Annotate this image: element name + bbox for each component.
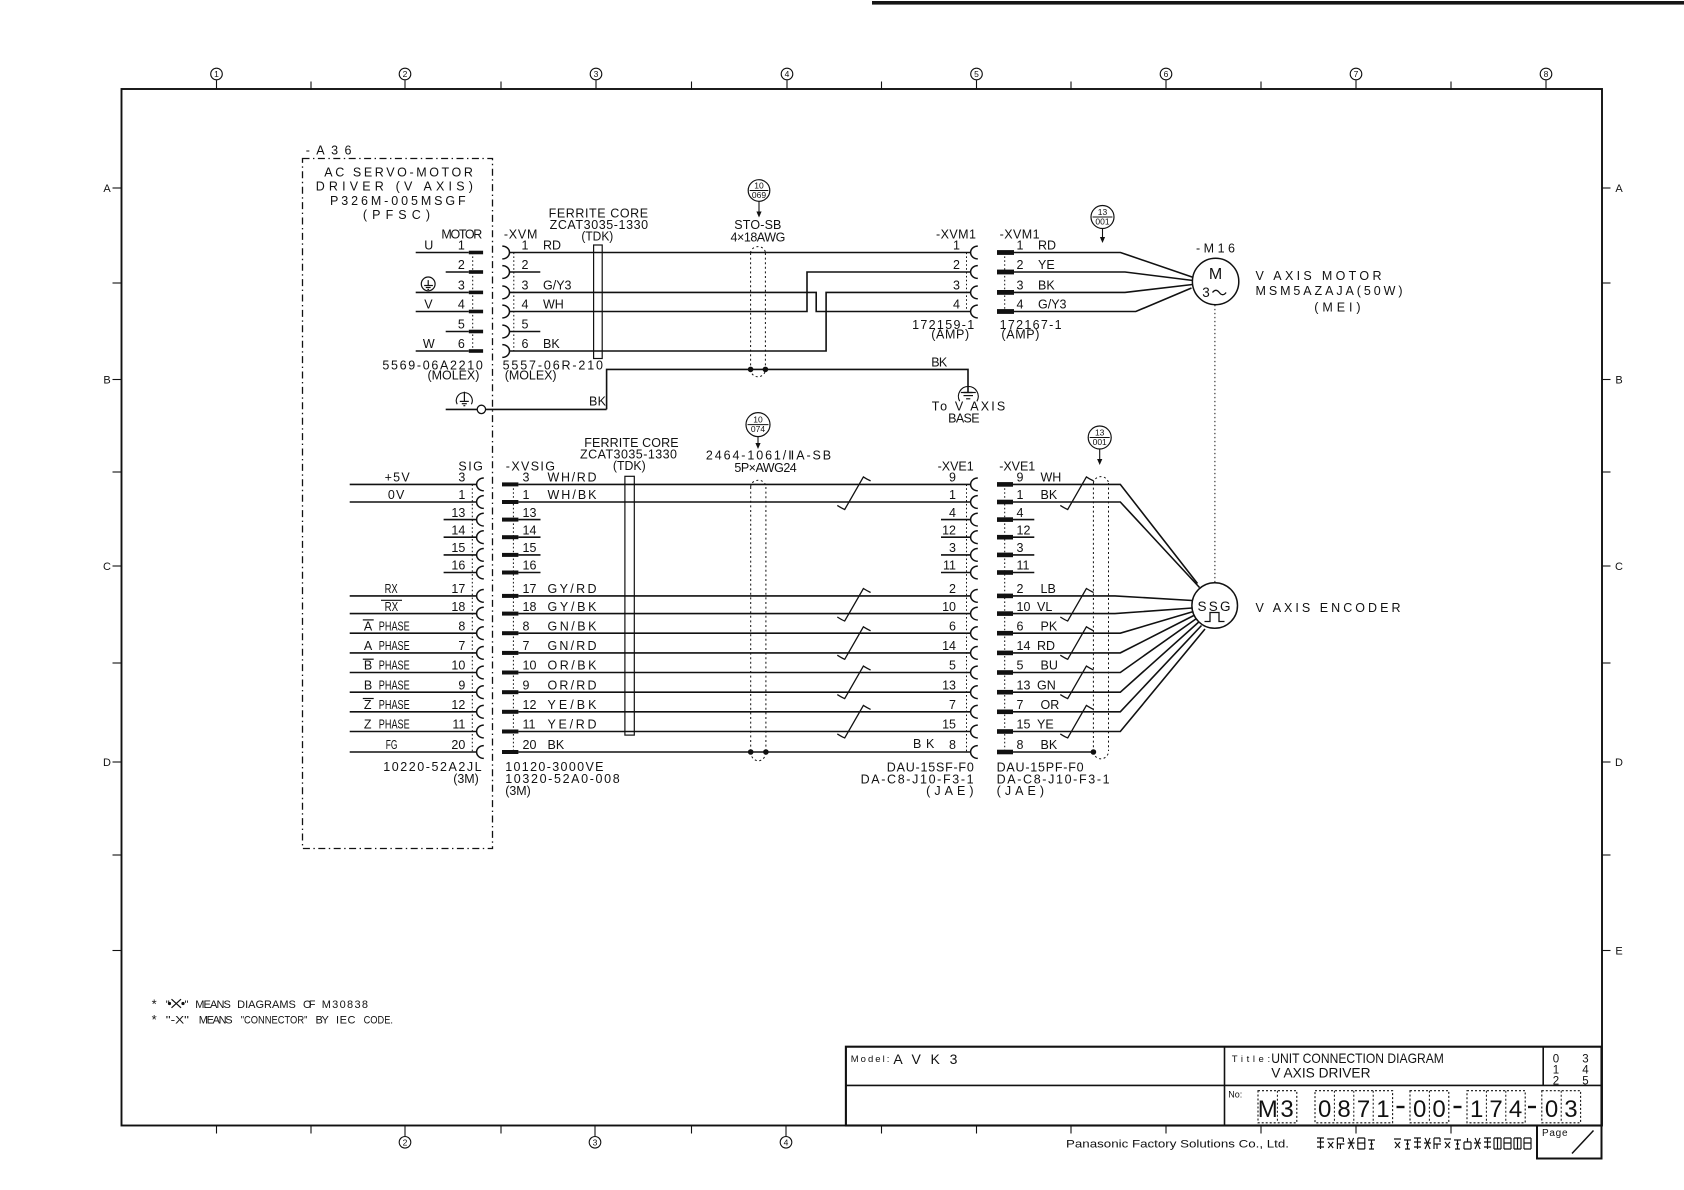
svg-text:No:: No:: [1228, 1090, 1242, 1100]
svg-text:2: 2: [1017, 582, 1024, 596]
svg-text:PHASE: PHASE: [379, 678, 410, 692]
svg-text:OF: OF: [303, 999, 316, 1011]
svg-text:3: 3: [522, 279, 529, 293]
svg-text:1: 1: [949, 488, 956, 502]
svg-text:A: A: [103, 183, 111, 195]
svg-text:PHASE: PHASE: [379, 619, 410, 633]
svg-text:BK: BK: [543, 337, 560, 351]
connector -XVM1 receptacle 172159-1 AMP: [912, 228, 978, 342]
svg-text:5: 5: [522, 318, 529, 332]
svg-text:": ": [185, 999, 189, 1011]
wire XVM1-3 BK to motor: [1014, 285, 1193, 293]
SIG pin wires: [350, 484, 477, 752]
svg-text:YE: YE: [1038, 258, 1055, 272]
svg-text:V AXIS DRIVER: V AXIS DRIVER: [1271, 1065, 1370, 1081]
wire XVE1-9 WH to encoder: [1013, 484, 1198, 583]
svg-text:2: 2: [522, 258, 529, 272]
svg-text:15: 15: [942, 718, 956, 732]
svg-text:5: 5: [949, 659, 956, 673]
drawing number M3 0871-00-174-03: [1228, 1090, 1580, 1124]
svg-text:11: 11: [523, 718, 536, 732]
svg-text:2: 2: [403, 1137, 408, 1147]
svg-text:12: 12: [1017, 523, 1031, 537]
cable STO-SB 4x18AWG sheath: [731, 218, 786, 377]
svg-text:8: 8: [523, 619, 530, 633]
svg-text:8: 8: [1337, 1096, 1350, 1123]
svg-text:11: 11: [452, 718, 465, 732]
wire XVM1-2 YE to motor: [1014, 272, 1193, 281]
svg-text:BU: BU: [1041, 659, 1058, 673]
wire XVM-3 G/Y3 to XVM1-4: [510, 292, 971, 311]
svg-text:C: C: [1615, 561, 1623, 573]
encoder signal wires XVSIG to XVE1: [518, 484, 970, 752]
reference circle 10/074: [746, 413, 770, 437]
svg-text:3: 3: [523, 471, 530, 485]
svg-text:WH: WH: [1041, 471, 1062, 485]
svg-text:GN: GN: [1037, 678, 1056, 692]
wire XVM1-1 RD to motor: [1014, 253, 1194, 278]
svg-text:5: 5: [1582, 1076, 1588, 1088]
svg-text:0: 0: [1413, 1096, 1426, 1123]
svg-text:15: 15: [451, 541, 465, 555]
wire XVE1-2 LB to encoder: [1013, 596, 1192, 601]
svg-text:FG: FG: [386, 738, 398, 752]
svg-text:BK: BK: [1041, 738, 1058, 752]
svg-text:5: 5: [458, 318, 465, 332]
svg-text:M: M: [1258, 1096, 1278, 1123]
connector -XVM 5557-06R-210 MOLEX: [502, 228, 603, 383]
MOTOR pin labels U / V / W: [423, 239, 435, 352]
model field AVK3: [851, 1051, 958, 1067]
dotted mechanical link motor to encoder: [1214, 305, 1216, 583]
svg-text:W: W: [423, 337, 435, 351]
svg-text:3: 3: [593, 1137, 598, 1147]
svg-text:M: M: [1209, 266, 1222, 283]
svg-text:2: 2: [1553, 1076, 1559, 1088]
svg-text:GN/RD: GN/RD: [548, 639, 597, 653]
svg-text:8: 8: [1544, 69, 1549, 79]
svg-text:12: 12: [451, 698, 465, 712]
svg-text:13: 13: [1098, 207, 1108, 217]
svg-text:(TDK): (TDK): [581, 230, 613, 244]
svg-text:20: 20: [451, 738, 465, 752]
svg-text:11: 11: [943, 559, 956, 573]
wire XVE1-13 GN to encoder: [1013, 622, 1199, 692]
connector -XVE1 plug DAU-15PF-F0 DA-C8-J10-F3-1 JAE: [997, 460, 1110, 798]
svg-text:4: 4: [458, 298, 465, 312]
svg-text:1: 1: [522, 239, 529, 253]
svg-text:10: 10: [451, 659, 465, 673]
wire XVM-2 stub: [510, 271, 541, 273]
svg-text:IEC: IEC: [336, 1015, 356, 1027]
svg-text:VL: VL: [1037, 600, 1052, 614]
connector -XVE1 receptacle DAU-15SF-F0 DA-C8-J10-F3-1 JAE: [861, 460, 978, 798]
svg-text:4: 4: [522, 298, 529, 312]
svg-text:(AMP): (AMP): [931, 328, 969, 342]
svg-text:GN/BK: GN/BK: [548, 619, 598, 633]
wire XVM-4 WH to XVM1-2: [510, 272, 971, 312]
svg-text:7: 7: [523, 639, 530, 653]
svg-text:1: 1: [523, 488, 530, 502]
svg-text:3: 3: [1017, 279, 1024, 293]
svg-text:16: 16: [451, 559, 465, 573]
svg-text:U: U: [424, 239, 433, 253]
svg-text:5: 5: [1017, 659, 1024, 673]
wire XVE1-15 YE to encoder: [1013, 629, 1205, 732]
svg-text:14: 14: [451, 523, 465, 537]
svg-text:A: A: [1615, 183, 1623, 195]
svg-text:7: 7: [949, 698, 956, 712]
svg-text:M30838: M30838: [322, 999, 368, 1011]
svg-text:V AXIS MOTOR: V AXIS MOTOR: [1256, 269, 1382, 283]
svg-text:BK: BK: [1041, 488, 1058, 502]
wire XVM-5 stub: [510, 331, 541, 333]
svg-text:4: 4: [785, 69, 790, 79]
svg-text:4: 4: [1509, 1096, 1522, 1123]
wire XVE1-14 RD to encoder: [1013, 615, 1195, 653]
svg-text:PHASE: PHASE: [379, 718, 410, 732]
svg-text:B: B: [1615, 375, 1622, 387]
svg-text:0: 0: [1318, 1096, 1331, 1123]
svg-text:3: 3: [1202, 285, 1210, 300]
svg-text:YE/BK: YE/BK: [548, 698, 598, 712]
svg-text:PHASE: PHASE: [379, 698, 410, 712]
svg-text:Z: Z: [364, 698, 372, 712]
wire XVM1-4 G/Y3 to motor: [1014, 288, 1192, 312]
encoder cable sheath at encoder end: [1091, 477, 1108, 759]
cable 2464-1061/IIA-SB 5PxAWG24 sheath: [706, 449, 831, 761]
svg-text:RD: RD: [1038, 239, 1056, 253]
svg-text:6: 6: [1017, 619, 1024, 633]
svg-text:YE/RD: YE/RD: [548, 718, 597, 732]
svg-text:G/Y3: G/Y3: [543, 279, 572, 293]
svg-text:1: 1: [1376, 1096, 1389, 1123]
wire XVE1-1 BK to encoder: [1013, 502, 1200, 588]
svg-text:"CONNECTOR": "CONNECTOR": [241, 1015, 308, 1027]
svg-text:2: 2: [953, 258, 960, 272]
svg-text:B: B: [364, 678, 372, 692]
svg-text:4: 4: [784, 1137, 789, 1147]
svg-text:G/Y3: G/Y3: [1038, 298, 1067, 312]
svg-text:*: *: [152, 996, 157, 1011]
connector SIG (driver side) 10220-52A2JL 3M: [383, 460, 484, 786]
svg-text:BK: BK: [1038, 279, 1055, 293]
svg-text:4: 4: [1017, 298, 1024, 312]
svg-text:GY/RD: GY/RD: [548, 582, 597, 596]
wire XVE1-6 PK to encoder: [1013, 612, 1194, 634]
svg-text:1: 1: [1017, 488, 1024, 502]
MOTOR pin wires inside driver: [416, 253, 469, 352]
svg-text:3: 3: [458, 279, 465, 293]
svg-text:16: 16: [523, 559, 537, 573]
svg-text:8: 8: [949, 738, 956, 752]
svg-text:6: 6: [522, 337, 529, 351]
wire XVE1-5 BU to encoder: [1013, 619, 1197, 673]
svg-text:001: 001: [1095, 216, 1109, 226]
encoder SSG V AXIS ENCODER: [1192, 583, 1401, 629]
svg-text:MEANS: MEANS: [199, 1015, 233, 1027]
svg-text:20: 20: [523, 738, 537, 752]
svg-text:4×18AWG: 4×18AWG: [731, 231, 786, 245]
svg-text:1: 1: [1017, 239, 1024, 253]
twisted pair marks (encoder side): [1060, 477, 1093, 738]
svg-text:Model:: Model:: [851, 1054, 890, 1065]
ferrite core ZCAT3035-1330 (TDK) lower: [580, 436, 679, 735]
svg-text:001: 001: [1093, 437, 1107, 447]
svg-text:A: A: [364, 639, 373, 653]
svg-text:DIAGRAMS: DIAGRAMS: [237, 999, 296, 1011]
svg-text:B: B: [364, 659, 372, 673]
svg-text:0: 0: [1432, 1096, 1445, 1123]
svg-text:14: 14: [942, 639, 956, 653]
svg-text:10: 10: [523, 659, 537, 673]
svg-text:0: 0: [1545, 1096, 1558, 1123]
company name: [1066, 1138, 1531, 1151]
reference circle 13/001 lower: [1088, 426, 1111, 449]
AC servo-motor driver box -A36: [303, 144, 493, 849]
svg-text:17: 17: [451, 582, 465, 596]
wire XVM-6 BK to XVM1-3: [510, 292, 971, 351]
svg-text:CODE.: CODE.: [364, 1015, 393, 1027]
svg-text:YE: YE: [1037, 718, 1054, 732]
svg-text:(MOLEX): (MOLEX): [428, 368, 480, 382]
svg-text:13: 13: [1095, 427, 1105, 437]
svg-text:5: 5: [974, 69, 979, 79]
svg-text:Page: Page: [1542, 1128, 1568, 1139]
svg-text:LB: LB: [1041, 582, 1056, 596]
svg-text:7: 7: [458, 639, 465, 653]
svg-text:12: 12: [523, 698, 537, 712]
earth ground To V AXIS BASE: [932, 386, 1006, 425]
svg-text:(3M): (3M): [453, 772, 479, 786]
svg-text:D: D: [1615, 757, 1623, 769]
svg-text:074: 074: [751, 424, 765, 434]
svg-text:(MOLEX): (MOLEX): [505, 368, 557, 382]
svg-text:9: 9: [949, 471, 956, 485]
reference circle 10/069: [748, 180, 770, 202]
svg-text:8: 8: [1017, 738, 1024, 752]
svg-text:Panasonic Factory Solutions Co: Panasonic Factory Solutions Co., Ltd.: [1066, 1139, 1289, 1151]
svg-text:10: 10: [942, 600, 956, 614]
wire XVE1-8 BK shield to cable shield: [1013, 751, 1093, 753]
svg-text:+5V: +5V: [385, 471, 411, 485]
svg-text:DA-C8-J10-F3-1: DA-C8-J10-F3-1: [997, 772, 1110, 786]
svg-text:18: 18: [523, 600, 537, 614]
svg-text:9: 9: [1017, 471, 1024, 485]
svg-text:(AMP): (AMP): [1001, 328, 1039, 342]
svg-text:1: 1: [458, 239, 465, 253]
svg-text:13: 13: [523, 506, 537, 520]
svg-text:3: 3: [949, 541, 956, 555]
svg-text:3: 3: [953, 279, 960, 293]
title field UNIT CONNECTION DIAGRAM V AXIS DRIVER: [1232, 1050, 1444, 1081]
svg-text:WH: WH: [543, 298, 564, 312]
svg-text:4: 4: [949, 506, 956, 520]
svg-text:1: 1: [1470, 1096, 1483, 1123]
title block: [846, 1047, 1602, 1126]
svg-text:BY: BY: [316, 1015, 330, 1027]
reference circle 13/001 upper: [1091, 206, 1114, 229]
wire BK shield to V axis base: [446, 356, 968, 414]
revision number grid: [1553, 1054, 1590, 1088]
svg-text:WH/BK: WH/BK: [548, 488, 598, 502]
svg-text:(TDK): (TDK): [613, 459, 646, 473]
svg-text:WH/RD: WH/RD: [548, 471, 597, 485]
svg-text:2: 2: [403, 69, 408, 79]
svg-text:(3M): (3M): [505, 784, 531, 798]
svg-text:*: *: [152, 1012, 157, 1027]
svg-text:"-X": "-X": [166, 1015, 189, 1027]
svg-text:10: 10: [754, 180, 764, 190]
svg-text:069: 069: [752, 190, 766, 200]
svg-text:10: 10: [753, 414, 763, 424]
svg-text:18: 18: [451, 600, 465, 614]
svg-text:AC SERVO-MOTOR: AC SERVO-MOTOR: [324, 165, 473, 179]
svg-text:14: 14: [1017, 639, 1031, 653]
svg-text:14: 14: [523, 523, 537, 537]
svg-text:3: 3: [1017, 541, 1024, 555]
svg-text:10: 10: [1017, 600, 1031, 614]
svg-text:7: 7: [1017, 698, 1024, 712]
svg-text:5P×AWG24: 5P×AWG24: [734, 461, 796, 475]
svg-text:BASE: BASE: [948, 412, 980, 426]
motor -M16 V AXIS MOTOR MSM5AZAJA (50W): [1192, 241, 1402, 314]
svg-text:8: 8: [458, 619, 465, 633]
svg-text:OR/RD: OR/RD: [548, 678, 597, 692]
ferrite core ZCAT3035-1330 (TDK) upper: [549, 206, 649, 358]
page box: [1537, 1126, 1602, 1159]
svg-text:0V: 0V: [388, 488, 405, 502]
svg-text:2: 2: [949, 582, 956, 596]
wire XVE1-7 OR to encoder: [1013, 626, 1202, 712]
svg-text:PK: PK: [1041, 619, 1058, 633]
svg-text:6: 6: [949, 619, 956, 633]
connector -XVM1 plug 172167-1 AMP: [997, 228, 1067, 342]
svg-text:11: 11: [1017, 559, 1030, 573]
svg-text:MEANS: MEANS: [195, 999, 231, 1011]
SIG signal name labels: [363, 471, 411, 753]
svg-text:3: 3: [594, 69, 599, 79]
svg-text:RX: RX: [385, 600, 399, 614]
svg-text:1: 1: [458, 488, 465, 502]
twisted pair marks (cable side): [837, 477, 870, 738]
protective earth symbol at MOTOR pin 3: [421, 277, 435, 291]
svg-text:RD: RD: [1037, 639, 1055, 653]
svg-text:3: 3: [1280, 1096, 1293, 1123]
connector -XVSIG 10120-3000VE / 10320-52A0-008 3M: [502, 460, 620, 798]
svg-text:17: 17: [523, 582, 537, 596]
svg-text:13: 13: [451, 506, 465, 520]
svg-text:C: C: [103, 561, 111, 573]
svg-text:PHASE: PHASE: [379, 639, 410, 653]
svg-text:7: 7: [1357, 1096, 1370, 1123]
svg-text:RX: RX: [385, 582, 399, 596]
svg-text:RD: RD: [543, 239, 561, 253]
svg-text:BK: BK: [548, 738, 565, 752]
svg-text:4: 4: [1017, 506, 1024, 520]
svg-text:P326M-005MSGF: P326M-005MSGF: [330, 194, 466, 208]
svg-text:15: 15: [1017, 718, 1031, 732]
svg-text:7: 7: [1489, 1096, 1502, 1123]
svg-text:4: 4: [953, 298, 960, 312]
svg-text:A: A: [364, 619, 373, 633]
note: reference marks legend: [152, 996, 393, 1027]
svg-text:2: 2: [1017, 258, 1024, 272]
svg-text:BK: BK: [589, 395, 607, 409]
svg-text:13: 13: [942, 678, 956, 692]
svg-text:3: 3: [1564, 1096, 1577, 1123]
svg-text:OR: OR: [1041, 698, 1060, 712]
svg-text:E: E: [1615, 946, 1622, 958]
svg-text:6: 6: [458, 337, 465, 351]
svg-text:9: 9: [458, 678, 465, 692]
svg-text:GY/BK: GY/BK: [548, 600, 598, 614]
svg-text:B: B: [103, 375, 110, 387]
svg-text:SSG: SSG: [1198, 599, 1231, 614]
wire XVM-1 RD to XVM1-1: [510, 252, 971, 254]
svg-text:Z: Z: [364, 718, 372, 732]
svg-text:V: V: [424, 298, 433, 312]
wire XVE1-10 VL to encoder: [1013, 608, 1192, 614]
svg-text:9: 9: [523, 678, 530, 692]
svg-text:3: 3: [458, 471, 465, 485]
svg-text:13: 13: [1017, 678, 1031, 692]
svg-text:1: 1: [214, 69, 219, 79]
connector MOTOR (driver side) 5569-06A2210 MOLEX: [382, 228, 483, 383]
svg-text:15: 15: [523, 541, 537, 555]
svg-text:7: 7: [1354, 69, 1359, 79]
svg-text:OR/BK: OR/BK: [548, 659, 598, 673]
svg-text:1: 1: [953, 239, 960, 253]
svg-text:12: 12: [942, 523, 956, 537]
svg-text:2: 2: [458, 258, 465, 272]
svg-text:D: D: [103, 757, 111, 769]
svg-text:PHASE: PHASE: [379, 659, 410, 673]
svg-text:UNIT CONNECTION DIAGRAM: UNIT CONNECTION DIAGRAM: [1271, 1050, 1444, 1066]
chassis ground symbol inside driver: [456, 392, 472, 406]
svg-text:BK: BK: [931, 356, 948, 370]
svg-text:6: 6: [1164, 69, 1169, 79]
